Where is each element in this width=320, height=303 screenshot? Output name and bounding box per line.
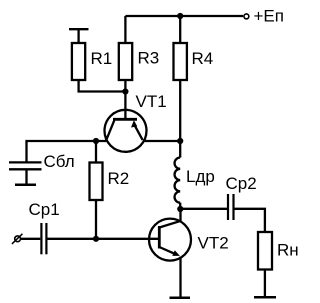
svg-text:R1: R1 (91, 49, 113, 68)
svg-text:R3: R3 (138, 49, 160, 68)
svg-text:Ср2: Ср2 (226, 174, 257, 193)
svg-text:R2: R2 (108, 169, 130, 188)
svg-text:R4: R4 (192, 49, 214, 68)
svg-text:Сбл: Сбл (44, 152, 75, 171)
svg-text:VT2: VT2 (198, 234, 229, 253)
svg-text:Rн: Rн (277, 241, 299, 260)
svg-text:Lдр: Lдр (186, 167, 215, 186)
svg-text:VT1: VT1 (136, 92, 167, 111)
svg-text:Ср1: Ср1 (29, 200, 60, 219)
svg-text:+Еп: +Еп (254, 7, 284, 26)
